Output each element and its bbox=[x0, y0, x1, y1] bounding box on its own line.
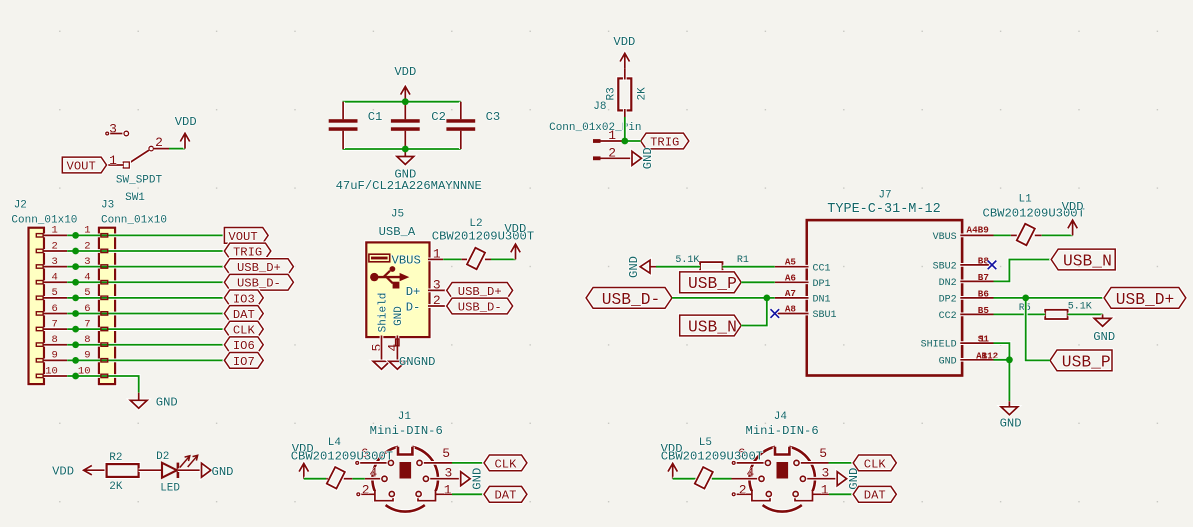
power GND at J5 pin5 bbox=[373, 361, 390, 369]
wire pin5 to CLK bbox=[452, 461, 484, 465]
J1 pin2 circle bbox=[357, 493, 360, 496]
power VDD at L4 bbox=[299, 463, 308, 478]
J5 usb trident icon bbox=[370, 266, 409, 288]
wire SW1 pin2 to VDD bbox=[169, 147, 185, 151]
junction caps VDD bbox=[402, 98, 409, 105]
J2 pin numbers bbox=[45, 225, 58, 378]
global label TRIG bbox=[224, 243, 270, 259]
svg-text:LED: LED bbox=[160, 482, 180, 494]
inductor L4 bbox=[327, 467, 345, 488]
wire DP2 to USB_D+ bbox=[994, 296, 1105, 300]
wire R3 junction overdraw bbox=[623, 117, 627, 141]
svg-text:5: 5 bbox=[442, 446, 450, 461]
global label TRIG at J8 bbox=[641, 133, 689, 149]
J1 pin4 bbox=[365, 477, 385, 481]
global label IO7 bbox=[224, 352, 263, 368]
junction pin1 bbox=[72, 232, 79, 239]
J1 pin1 lead and shell cutout bbox=[418, 491, 452, 501]
J7 right pins bbox=[960, 235, 993, 359]
J4 pin1 lead and shell cutout bbox=[795, 491, 829, 501]
diode D2 LED bbox=[162, 455, 198, 478]
J1 pin3 bbox=[426, 477, 461, 481]
junction pin4 bbox=[72, 279, 79, 286]
svg-text:TRIG: TRIG bbox=[650, 135, 679, 149]
svg-text:J4: J4 bbox=[774, 411, 788, 423]
wire J8 pin1 to TRIG bbox=[625, 139, 641, 143]
svg-text:B5: B5 bbox=[978, 305, 990, 316]
wire J2/J3 pin3 net USB_D+ bbox=[67, 265, 224, 269]
svg-text:Conn_01x02_Pin: Conn_01x02_Pin bbox=[549, 122, 641, 134]
resistor R2 bbox=[107, 464, 139, 477]
power GND at J4 pin3 bbox=[837, 472, 846, 486]
svg-text:A7: A7 bbox=[785, 288, 796, 299]
svg-text:GND: GND bbox=[1093, 330, 1115, 344]
wire pin1 to DAT bbox=[452, 492, 484, 496]
wire L5 to pin4 bbox=[712, 477, 732, 481]
junction pin7 bbox=[72, 326, 79, 333]
J3 pin marks bbox=[101, 234, 108, 378]
power VDD at SW1 bbox=[180, 133, 189, 148]
global label VOUT bbox=[224, 228, 268, 244]
wire VDD rail caps bbox=[343, 100, 461, 104]
J4 pin numbers bbox=[738, 446, 830, 497]
svg-text:4: 4 bbox=[369, 465, 377, 480]
junction pin9 bbox=[72, 357, 79, 364]
junction J8 pin1 bbox=[621, 138, 628, 145]
inductor L1 bbox=[1017, 224, 1035, 245]
global label CLK at J4 bbox=[853, 455, 896, 471]
svg-text:DN2: DN2 bbox=[939, 278, 957, 289]
J4 pin3 bbox=[803, 477, 837, 481]
power GND at R5 bbox=[1094, 314, 1111, 326]
svg-text:GND: GND bbox=[156, 396, 178, 410]
global label DAT at J4 bbox=[853, 486, 896, 502]
global label VOUT at SW1 bbox=[62, 157, 106, 173]
svg-text:J1: J1 bbox=[398, 411, 412, 423]
svg-text:Conn_01x10: Conn_01x10 bbox=[11, 215, 77, 227]
svg-text:CC1: CC1 bbox=[813, 263, 831, 274]
svg-text:VDD: VDD bbox=[504, 222, 526, 236]
svg-text:1: 1 bbox=[109, 153, 117, 168]
inductor L5 bbox=[695, 467, 713, 488]
J4 key bbox=[777, 462, 789, 479]
svg-text:L5: L5 bbox=[699, 437, 712, 449]
global label USB_N at J7 left bbox=[680, 315, 742, 336]
wire pin5 to CLK bbox=[829, 461, 854, 465]
svg-text:SBU1: SBU1 bbox=[813, 310, 837, 321]
J4 pin4 bbox=[732, 477, 762, 481]
svg-text:C3: C3 bbox=[486, 110, 501, 124]
svg-text:47uF/CL21A226MAYNNNE: 47uF/CL21A226MAYNNNE bbox=[336, 179, 482, 193]
junction pin3 bbox=[72, 263, 79, 270]
wire J2/J3 pin4 net USB_D- bbox=[67, 280, 224, 284]
J7 left pins bbox=[775, 267, 809, 314]
J4 pin6 bbox=[735, 461, 768, 465]
svg-text:A6: A6 bbox=[785, 272, 797, 283]
connector J4 Mini-DIN-6 bbox=[749, 447, 815, 512]
wire USB_P to DP1 bbox=[741, 280, 775, 284]
J1 pin2 lead and shell cutout bbox=[360, 491, 393, 501]
svg-text:5.1K: 5.1K bbox=[675, 255, 699, 266]
svg-text:C1: C1 bbox=[368, 110, 383, 124]
svg-text:VDD: VDD bbox=[52, 465, 74, 479]
svg-text:C2: C2 bbox=[431, 110, 446, 124]
global label CLK bbox=[224, 321, 263, 337]
wire GND rail caps bbox=[343, 147, 461, 151]
power GND at J3 pin10 bbox=[130, 393, 147, 408]
power GND at J1 pin3 bbox=[461, 472, 470, 486]
J4 pin holes bbox=[759, 460, 806, 496]
global label USB_D+ bbox=[224, 259, 293, 275]
svg-text:J2: J2 bbox=[14, 199, 27, 211]
svg-text:DAT: DAT bbox=[864, 489, 886, 503]
junction pin2 bbox=[72, 248, 79, 255]
power GND at caps bbox=[397, 149, 414, 164]
svg-text:VDD: VDD bbox=[613, 35, 635, 49]
svg-text:USB_N: USB_N bbox=[688, 317, 737, 336]
svg-text:4: 4 bbox=[746, 465, 754, 480]
J1 pin5 bbox=[420, 461, 453, 465]
svg-text:USB_P: USB_P bbox=[688, 274, 737, 293]
wire CC2 through R5 to GND bbox=[994, 312, 1046, 316]
wire J2/J3 pin2 net TRIG bbox=[67, 249, 224, 253]
svg-text:DAT: DAT bbox=[494, 489, 516, 503]
global label DAT bbox=[224, 306, 263, 322]
junction DN1 bbox=[763, 295, 770, 302]
svg-text:CBW201209U300T: CBW201209U300T bbox=[661, 450, 763, 464]
J3 pin numbers bbox=[78, 225, 91, 378]
svg-text:5: 5 bbox=[819, 446, 827, 461]
svg-text:3: 3 bbox=[109, 122, 117, 137]
J7 left pin designators bbox=[785, 257, 797, 315]
power VDD at R3 bbox=[620, 53, 629, 68]
svg-text:A4B9: A4B9 bbox=[967, 225, 990, 236]
power GND at D2 bbox=[202, 463, 211, 477]
wire DN2 to USB_N bbox=[994, 260, 1052, 282]
svg-text:USB_D-: USB_D- bbox=[602, 290, 661, 309]
connector J3 Conn_01x10 bbox=[99, 228, 115, 384]
wire USB_N riser to DN1 bbox=[741, 298, 767, 326]
wire VBUS to L1 bbox=[994, 233, 1011, 237]
svg-text:J7: J7 bbox=[878, 190, 891, 202]
svg-text:SBU2: SBU2 bbox=[933, 262, 957, 273]
wire J2/J3 pin9 net IO7 bbox=[67, 358, 224, 362]
capacitor C1 bbox=[341, 102, 345, 149]
J4 pin2 lead and shell cutout bbox=[735, 491, 770, 501]
svg-text:DP2: DP2 bbox=[939, 295, 957, 306]
svg-text:D2: D2 bbox=[156, 451, 169, 463]
svg-text:TYPE-C-31-M-12: TYPE-C-31-M-12 bbox=[827, 202, 940, 217]
J1 pin6 bbox=[359, 461, 391, 465]
svg-text:CLK: CLK bbox=[864, 457, 887, 471]
svg-text:Mini-DIN-6: Mini-DIN-6 bbox=[370, 424, 443, 438]
J7 right pin designators bbox=[967, 225, 999, 362]
wire DP2 riser to USB_P bbox=[1026, 298, 1050, 361]
svg-text:Mini-DIN-6: Mini-DIN-6 bbox=[746, 424, 819, 438]
svg-text:1: 1 bbox=[444, 482, 452, 497]
svg-text:GND: GND bbox=[939, 356, 957, 367]
wire USB_D- to DN1 bbox=[672, 296, 775, 300]
junction pin6 bbox=[72, 310, 79, 317]
wire CC1 to R1 to GND bbox=[723, 265, 775, 269]
junction GND net J7 bbox=[1006, 356, 1013, 363]
svg-text:J5: J5 bbox=[391, 208, 404, 220]
svg-text:Conn_01x10: Conn_01x10 bbox=[101, 215, 167, 227]
svg-text:GND: GND bbox=[393, 306, 405, 326]
svg-text:USB_D-: USB_D- bbox=[458, 300, 502, 314]
power GND at J7 bbox=[1001, 401, 1018, 414]
J4 pin2 circle bbox=[732, 493, 735, 496]
svg-text:SW1: SW1 bbox=[125, 192, 145, 204]
J1 pin numbers bbox=[361, 446, 453, 497]
capacitor C2 bbox=[403, 102, 407, 149]
J5 usb receptacle icon bbox=[369, 254, 390, 262]
resistor R3 bbox=[618, 78, 631, 110]
J2 pins bbox=[43, 235, 68, 376]
svg-text:R1: R1 bbox=[737, 255, 749, 266]
svg-text:VDD: VDD bbox=[394, 65, 416, 79]
connector J7 TYPE-C-31-M-12 bbox=[807, 220, 962, 375]
svg-text:J8: J8 bbox=[593, 101, 606, 113]
svg-text:D+: D+ bbox=[406, 285, 421, 299]
J7 right pin names bbox=[921, 232, 957, 367]
connector J2 Conn_01x10 bbox=[29, 228, 45, 384]
global label USB_P at J7 right bbox=[1050, 350, 1112, 371]
wire L1 to VDD bbox=[1042, 233, 1073, 237]
svg-text:A5: A5 bbox=[785, 257, 797, 268]
svg-text:VBUS: VBUS bbox=[933, 232, 957, 243]
global label DAT at J1 bbox=[484, 486, 527, 502]
junction pin5 bbox=[72, 294, 79, 301]
svg-text:GND: GND bbox=[471, 468, 485, 490]
global label USB_D+ at J7 right bbox=[1104, 288, 1186, 309]
J7 left pin names bbox=[813, 263, 837, 321]
no-connect at SBU2 bbox=[988, 261, 997, 270]
power VDD at caps bbox=[401, 86, 410, 101]
J1 key bbox=[400, 462, 412, 479]
global label USB_D+ at J5 bbox=[447, 283, 513, 299]
global label IO3 bbox=[224, 290, 263, 306]
svg-text:B7: B7 bbox=[978, 272, 989, 283]
capacitor C3 bbox=[459, 102, 463, 149]
svg-text:R3: R3 bbox=[605, 87, 617, 100]
wire R2 to D2 bbox=[139, 468, 162, 472]
J2 pin marks bbox=[36, 234, 43, 378]
power GND at J8 pin2 bbox=[632, 151, 641, 165]
svg-text:CC2: CC2 bbox=[939, 311, 957, 322]
svg-text:B6: B6 bbox=[978, 288, 990, 299]
J5 pin lines bbox=[382, 259, 447, 361]
svg-text:CBW201209U300T: CBW201209U300T bbox=[291, 450, 393, 464]
power VDD at L2 bbox=[511, 244, 520, 259]
inductor L2 bbox=[467, 248, 485, 269]
svg-text:2K: 2K bbox=[636, 87, 648, 101]
svg-text:SHIELD: SHIELD bbox=[921, 340, 957, 351]
svg-text:CLK: CLK bbox=[494, 457, 517, 471]
svg-text:3: 3 bbox=[821, 465, 829, 480]
resistor R1 bbox=[700, 262, 722, 271]
svg-text:USB_N: USB_N bbox=[1063, 251, 1112, 270]
wire VDD to L4 bbox=[304, 477, 326, 481]
svg-text:2: 2 bbox=[155, 135, 163, 150]
power VDD at L1 bbox=[1068, 220, 1077, 235]
svg-text:USB_D+: USB_D+ bbox=[1116, 290, 1175, 309]
global label IO6 bbox=[224, 337, 263, 353]
no-connect at SBU1 bbox=[771, 309, 780, 318]
wire L2 to VDD bbox=[491, 257, 516, 261]
power VDD at L5 bbox=[668, 463, 677, 478]
connector J8 Conn_01x02_Pin bbox=[593, 141, 632, 158]
svg-text:J3: J3 bbox=[101, 199, 114, 211]
junction pin8 bbox=[72, 341, 79, 348]
svg-text:2K: 2K bbox=[109, 481, 123, 493]
svg-text:5.1K: 5.1K bbox=[1068, 302, 1092, 313]
wire SHIELD to GND net bbox=[994, 343, 1010, 360]
svg-text:1: 1 bbox=[608, 128, 616, 143]
svg-text:2: 2 bbox=[739, 482, 747, 497]
power GND at R1 bbox=[640, 260, 656, 273]
wire L4 to pin4 bbox=[352, 477, 364, 481]
svg-text:1: 1 bbox=[979, 334, 985, 345]
svg-text:GND: GND bbox=[627, 256, 641, 278]
wire J5 pin1 to L2 bbox=[443, 257, 461, 261]
svg-text:L1: L1 bbox=[1018, 194, 1032, 206]
svg-text:VBUS: VBUS bbox=[392, 253, 421, 267]
switch SW1 SW_SPDT bbox=[106, 131, 169, 168]
svg-text:R2: R2 bbox=[109, 452, 122, 464]
junction DP2 bbox=[1022, 295, 1029, 302]
wire J2/J3 pin1 net VOUT bbox=[67, 233, 224, 237]
wire R3 to J8 pin1 bbox=[623, 109, 627, 117]
svg-text:VOUT: VOUT bbox=[67, 159, 96, 173]
svg-text:L4: L4 bbox=[328, 437, 342, 449]
power VDD at R2 bbox=[84, 466, 107, 475]
svg-text:GND: GND bbox=[641, 147, 655, 169]
wire J2/J3 pin7 net CLK bbox=[67, 327, 224, 331]
wire GND pin to GND symbol bbox=[994, 360, 1010, 402]
svg-text:VDD: VDD bbox=[175, 115, 197, 129]
wire VDD to L5 bbox=[673, 477, 696, 481]
global label USB_N at J7 right bbox=[1051, 249, 1115, 270]
wire D2 to GND bbox=[178, 468, 202, 472]
svg-text:3: 3 bbox=[444, 465, 452, 480]
global label USB_D- at J5 bbox=[447, 298, 513, 314]
svg-text:2: 2 bbox=[608, 145, 616, 160]
connector J5 USB_A bbox=[366, 242, 429, 337]
svg-text:GND: GND bbox=[212, 465, 234, 479]
svg-text:GNGND: GNGND bbox=[399, 355, 436, 369]
svg-text:IO7: IO7 bbox=[233, 355, 255, 369]
wire J2/J3 pin6 net DAT bbox=[67, 312, 224, 316]
resistor R5 bbox=[1045, 310, 1067, 319]
global label USB_D- bbox=[224, 274, 293, 290]
J1 pin holes bbox=[382, 460, 429, 496]
svg-text:USB_P: USB_P bbox=[1062, 352, 1111, 371]
J4 pin5 bbox=[797, 461, 829, 465]
wire pin1 to DAT bbox=[829, 492, 853, 496]
svg-text:D-: D- bbox=[406, 300, 421, 314]
global label USB_D- at DN1 bbox=[586, 288, 672, 309]
svg-text:2: 2 bbox=[362, 482, 370, 497]
svg-text:L2: L2 bbox=[469, 218, 482, 230]
svg-text:DP1: DP1 bbox=[813, 279, 831, 290]
svg-text:VDD: VDD bbox=[1062, 200, 1084, 214]
global label USB_P at DP1 bbox=[680, 272, 742, 293]
svg-text:GND: GND bbox=[1000, 417, 1022, 431]
svg-text:USB_A: USB_A bbox=[379, 225, 416, 239]
svg-text:A8: A8 bbox=[785, 304, 797, 315]
svg-text:DN1: DN1 bbox=[813, 295, 831, 306]
wire J2/J3 pin5 net IO3 bbox=[67, 296, 224, 300]
wire J2/J3 pin8 net IO6 bbox=[67, 343, 224, 347]
svg-text:1: 1 bbox=[821, 482, 829, 497]
connector J1 Mini-DIN-6 bbox=[372, 447, 438, 512]
junction pin10 bbox=[72, 373, 79, 380]
wire R3 to VDD bbox=[623, 69, 627, 80]
power GND at J5 pin4 bbox=[389, 361, 406, 369]
global label CLK at J1 bbox=[484, 455, 527, 471]
wire J2/J3 pin10 net GND bbox=[67, 376, 139, 393]
svg-text:Shield: Shield bbox=[377, 293, 389, 333]
junction caps GND bbox=[402, 146, 409, 153]
svg-text:SW_SPDT: SW_SPDT bbox=[116, 174, 163, 186]
